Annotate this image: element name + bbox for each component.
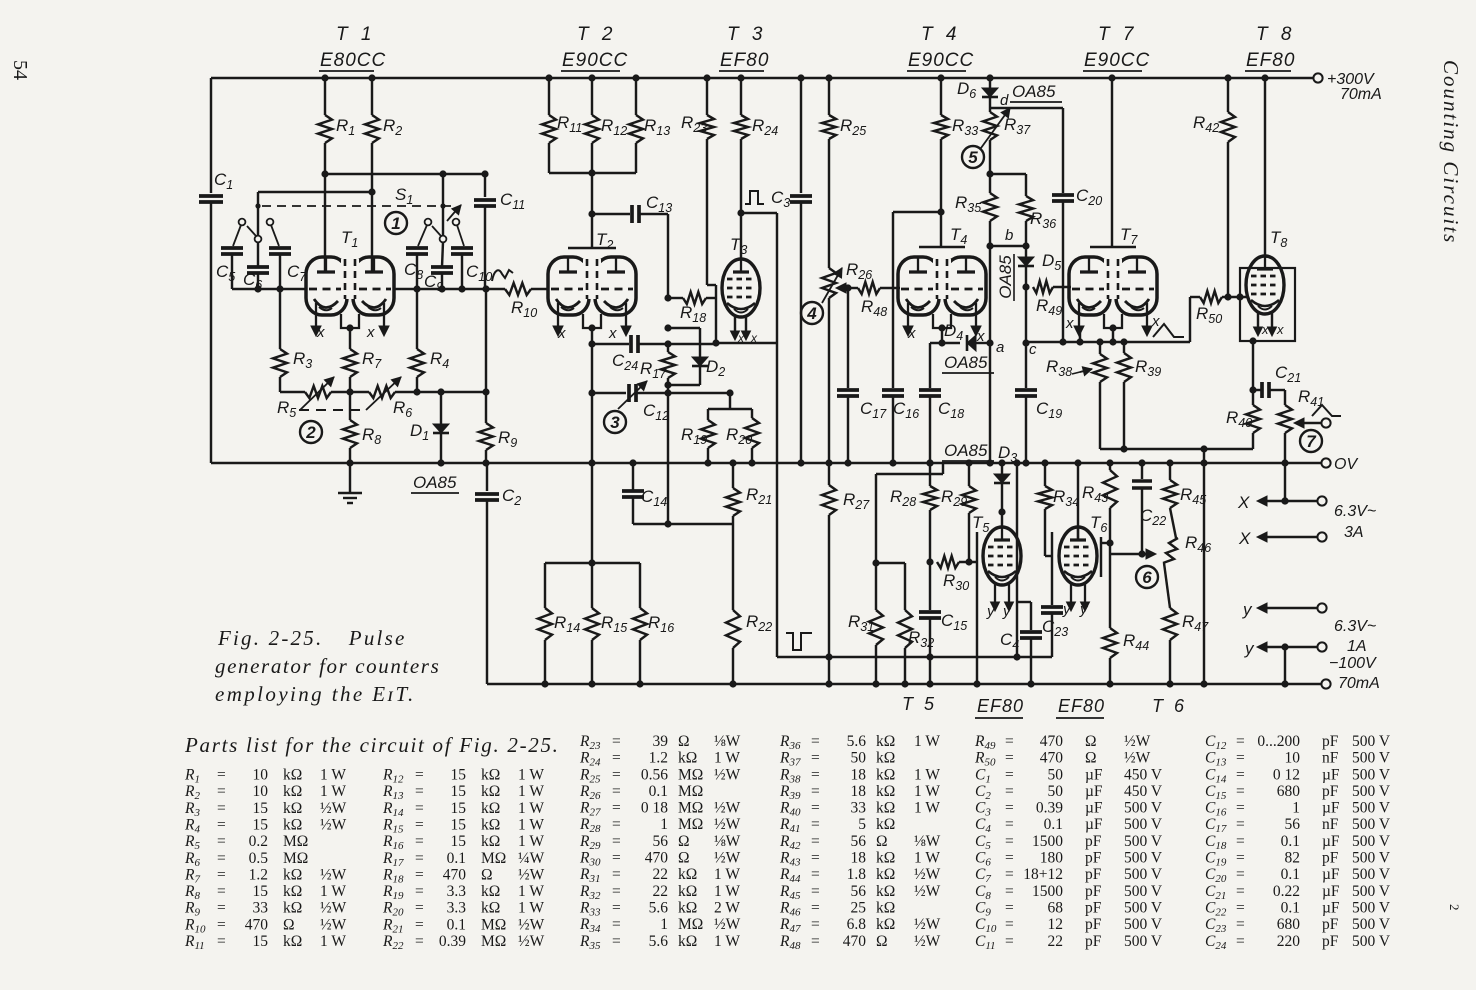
svg-text:1.2: 1.2 [249,866,268,883]
svg-text:6: 6 [1142,568,1152,587]
svg-text:=: = [217,866,226,883]
svg-text:MΩ: MΩ [678,816,703,833]
svg-text:x: x [907,325,916,342]
svg-text:500 V: 500 V [1124,883,1163,900]
svg-text:=: = [217,850,226,867]
svg-text:MΩ: MΩ [678,783,703,800]
svg-text:=: = [415,850,424,867]
svg-text:kΩ: kΩ [876,816,895,833]
svg-text:EF80: EF80 [1246,50,1295,71]
svg-text:0.1: 0.1 [1281,833,1300,850]
svg-text:MΩ: MΩ [678,766,703,783]
svg-text:0 12: 0 12 [1273,766,1300,783]
svg-text:0.1: 0.1 [447,850,466,867]
svg-text:Ω: Ω [876,833,888,850]
svg-text:56: 56 [851,833,867,850]
svg-text:kΩ: kΩ [283,767,302,784]
svg-text:0.56: 0.56 [641,766,668,783]
svg-text:56: 56 [851,883,867,900]
svg-text:−100V: −100V [1329,655,1377,672]
svg-text:E90CC: E90CC [1084,50,1150,71]
svg-text:450 V: 450 V [1124,783,1163,800]
svg-text:=: = [1236,916,1245,933]
svg-text:pF: pF [1322,733,1339,750]
svg-text:=: = [811,933,820,950]
svg-text:pF: pF [1085,850,1102,867]
svg-text:1 W: 1 W [914,800,940,817]
svg-text:=: = [811,783,820,800]
svg-text:5.6: 5.6 [649,933,669,950]
svg-text:=: = [217,767,226,784]
svg-text:22: 22 [1048,933,1064,950]
svg-text:x: x [608,325,617,342]
svg-text:=: = [415,783,424,800]
svg-text:1: 1 [660,916,668,933]
svg-text:=: = [612,816,621,833]
svg-text:25: 25 [851,900,867,917]
svg-text:2: 2 [305,423,316,442]
svg-text:5: 5 [968,148,978,167]
svg-text:3.3: 3.3 [447,900,467,917]
svg-text:1 W: 1 W [714,750,740,767]
svg-text:470: 470 [443,866,467,883]
svg-text:500 V: 500 V [1124,900,1163,917]
svg-text:56: 56 [653,833,669,850]
svg-text:Parts list for the circuit of: Parts list for the circuit of Fig. 2-25. [184,733,560,757]
svg-text:½W: ½W [1124,733,1151,750]
svg-text:1 W: 1 W [320,933,346,950]
svg-text:18: 18 [851,766,867,783]
svg-text:=: = [217,817,226,834]
svg-text:½W: ½W [714,850,741,867]
svg-text:0.39: 0.39 [439,933,466,950]
svg-text:=: = [415,883,424,900]
svg-text:56: 56 [1285,816,1301,833]
svg-text:T 6: T 6 [1152,696,1187,716]
svg-text:½W: ½W [320,866,347,883]
svg-text:22: 22 [653,866,669,883]
svg-text:x: x [750,331,758,345]
svg-text:10: 10 [253,783,269,800]
svg-text:=: = [1236,850,1245,867]
svg-text:OA85: OA85 [944,353,988,372]
svg-text:T 3: T 3 [727,24,766,45]
svg-text:=: = [1236,766,1245,783]
svg-text:=: = [1005,850,1014,867]
svg-text:82: 82 [1285,850,1301,867]
svg-text:½W: ½W [320,817,347,834]
svg-text:kΩ: kΩ [678,883,697,900]
svg-text:33: 33 [253,900,269,917]
svg-text:50: 50 [851,750,867,767]
svg-text:OA85: OA85 [996,255,1015,299]
svg-text:½W: ½W [714,916,741,933]
svg-text:0.1: 0.1 [1281,866,1300,883]
svg-text:=: = [1236,733,1245,750]
svg-text:x: x [1151,313,1160,330]
svg-text:500 V: 500 V [1352,783,1391,800]
svg-text:=: = [612,933,621,950]
svg-text:kΩ: kΩ [481,767,500,784]
svg-text:kΩ: kΩ [678,933,697,950]
svg-text:500 V: 500 V [1124,866,1163,883]
svg-text:=: = [811,883,820,900]
svg-text:⅛W: ⅛W [714,733,741,750]
svg-text:µF: µF [1085,816,1103,833]
svg-text:220: 220 [1277,933,1301,950]
svg-text:MΩ: MΩ [283,850,308,867]
svg-text:5: 5 [858,816,866,833]
svg-text:MΩ: MΩ [481,933,506,950]
svg-text:=: = [415,916,424,933]
svg-text:=: = [217,916,226,933]
svg-text:µF: µF [1322,900,1340,917]
svg-text:=: = [811,916,820,933]
svg-text:1 W: 1 W [518,800,544,817]
svg-text:=: = [811,900,820,917]
svg-text:500 V: 500 V [1124,833,1163,850]
svg-text:T 1: T 1 [336,24,375,45]
svg-text:500 V: 500 V [1352,916,1391,933]
svg-text:500 V: 500 V [1124,850,1163,867]
svg-text:X: X [1238,529,1251,548]
svg-text:MΩ: MΩ [481,916,506,933]
svg-text:0.39: 0.39 [1036,800,1063,817]
svg-text:54: 54 [9,60,31,80]
svg-text:1 W: 1 W [714,933,740,950]
svg-text:OA85: OA85 [1012,82,1056,101]
svg-text:=: = [1005,733,1014,750]
svg-text:=: = [612,733,621,750]
svg-text:=: = [217,933,226,950]
svg-text:kΩ: kΩ [481,800,500,817]
svg-text:MΩ: MΩ [678,916,703,933]
svg-text:=: = [217,883,226,900]
svg-text:0 18: 0 18 [641,800,668,817]
svg-text:µF: µF [1322,766,1340,783]
svg-text:¼W: ¼W [518,850,545,867]
svg-text:5.6: 5.6 [847,733,867,750]
svg-text:1 W: 1 W [518,767,544,784]
svg-text:a: a [996,339,1004,356]
svg-text:470: 470 [1040,733,1064,750]
svg-text:½W: ½W [320,800,347,817]
svg-text:pF: pF [1085,933,1102,950]
svg-text:680: 680 [1277,916,1301,933]
svg-text:1 W: 1 W [714,866,740,883]
svg-text:=: = [1005,783,1014,800]
svg-text:0.1: 0.1 [649,783,668,800]
svg-text:=: = [1236,800,1245,817]
svg-text:Counting Circuits: Counting Circuits [1439,60,1463,244]
svg-text:=: = [1236,883,1245,900]
svg-text:15: 15 [451,767,467,784]
svg-text:d: d [1000,92,1009,109]
svg-text:x: x [366,324,375,341]
svg-text:MΩ: MΩ [678,800,703,817]
svg-text:1 W: 1 W [914,850,940,867]
svg-text:1: 1 [1292,800,1300,817]
svg-text:T 2: T 2 [577,24,616,45]
svg-text:kΩ: kΩ [876,916,895,933]
svg-text:500 V: 500 V [1124,816,1163,833]
svg-text:kΩ: kΩ [876,850,895,867]
svg-text:y: y [1242,600,1253,619]
svg-text:pF: pF [1322,933,1339,950]
svg-text:µF: µF [1322,883,1340,900]
svg-text:=: = [612,783,621,800]
svg-text:kΩ: kΩ [876,766,895,783]
svg-text:kΩ: kΩ [283,800,302,817]
svg-text:OV: OV [1334,456,1358,473]
svg-text:39: 39 [653,733,669,750]
svg-text:kΩ: kΩ [283,783,302,800]
svg-text:1 W: 1 W [518,817,544,834]
svg-text:=: = [415,800,424,817]
svg-text:½W: ½W [320,900,347,917]
svg-text:T 8: T 8 [1256,24,1295,45]
svg-text:=: = [1005,750,1014,767]
svg-text:y: y [1244,639,1255,658]
svg-text:500 V: 500 V [1352,800,1391,817]
svg-text:=: = [415,866,424,883]
svg-text:1 W: 1 W [320,883,346,900]
svg-text:x: x [316,324,325,341]
svg-text:1: 1 [660,816,668,833]
svg-text:kΩ: kΩ [876,883,895,900]
svg-text:1 W: 1 W [914,733,940,750]
svg-text:kΩ: kΩ [481,833,500,850]
svg-text:500 V: 500 V [1352,900,1391,917]
svg-text:T 7: T 7 [1098,24,1137,45]
svg-text:22: 22 [653,883,669,900]
svg-text:x: x [1065,315,1074,332]
svg-text:E80CC: E80CC [320,50,386,71]
svg-text:1500: 1500 [1032,883,1063,900]
svg-text:=: = [1236,783,1245,800]
svg-text:½W: ½W [518,933,545,950]
svg-text:500 V: 500 V [1352,816,1391,833]
svg-text:Ω: Ω [1085,733,1097,750]
svg-text:Ω: Ω [678,850,690,867]
svg-text:0.22: 0.22 [1273,883,1300,900]
svg-text:500 V: 500 V [1352,733,1391,750]
svg-text:pF: pF [1085,833,1102,850]
svg-text:1A: 1A [1347,638,1367,655]
svg-text:pF: pF [1085,900,1102,917]
svg-text:15: 15 [253,800,269,817]
svg-text:MΩ: MΩ [481,850,506,867]
svg-text:kΩ: kΩ [283,933,302,950]
svg-text:=: = [811,850,820,867]
svg-text:1.2: 1.2 [649,750,668,767]
svg-text:500 V: 500 V [1124,800,1163,817]
svg-text:T 4: T 4 [921,24,960,45]
svg-text:6.8: 6.8 [847,916,867,933]
svg-text:½W: ½W [714,766,741,783]
svg-text:5.6: 5.6 [649,900,669,917]
svg-text:=: = [415,767,424,784]
svg-text:Fig. 2-25. Pulse: Fig. 2-25. Pulse [217,626,406,650]
svg-text:kΩ: kΩ [481,883,500,900]
svg-text:=: = [1005,933,1014,950]
svg-text:0...200: 0...200 [1257,733,1300,750]
svg-text:=: = [811,750,820,767]
svg-text:½W: ½W [714,800,741,817]
svg-text:kΩ: kΩ [283,866,302,883]
svg-text:µF: µF [1322,800,1340,817]
svg-text:=: = [811,733,820,750]
svg-text:½W: ½W [518,916,545,933]
svg-text:kΩ: kΩ [678,900,697,917]
svg-text:1 W: 1 W [518,833,544,850]
svg-text:=: = [1236,833,1245,850]
svg-text:70mA: 70mA [1340,86,1382,103]
svg-text:Ω: Ω [1085,750,1097,767]
svg-text:6.3V~: 6.3V~ [1334,618,1376,635]
svg-text:Ω: Ω [678,833,690,850]
svg-text:µF: µF [1085,783,1103,800]
svg-text:=: = [1005,900,1014,917]
svg-text:kΩ: kΩ [678,750,697,767]
svg-text:1500: 1500 [1032,833,1063,850]
svg-text:7: 7 [1306,432,1317,451]
svg-text:EF80: EF80 [1058,696,1105,716]
svg-text:½W: ½W [714,816,741,833]
svg-text:µF: µF [1085,766,1103,783]
svg-text:Ω: Ω [283,916,295,933]
svg-text:470: 470 [843,933,867,950]
svg-text:15: 15 [451,800,467,817]
svg-text:⅛W: ⅛W [914,833,941,850]
svg-text:x: x [1276,322,1284,337]
svg-text:T 5: T 5 [902,694,937,714]
svg-text:OA85: OA85 [413,473,457,492]
svg-text:=: = [1005,883,1014,900]
svg-text:70mA: 70mA [1338,675,1380,692]
svg-text:6.3V~: 6.3V~ [1334,503,1376,520]
svg-text:=: = [612,850,621,867]
svg-text:=: = [612,916,621,933]
svg-text:EF80: EF80 [977,696,1024,716]
svg-text:15: 15 [253,817,269,834]
svg-text:kΩ: kΩ [876,733,895,750]
svg-text:680: 680 [1277,783,1301,800]
svg-text:=: = [1005,800,1014,817]
svg-text:x: x [737,331,745,345]
svg-text:Ω: Ω [481,866,493,883]
svg-text:470: 470 [1040,750,1064,767]
svg-text:kΩ: kΩ [678,866,697,883]
svg-text:1 W: 1 W [914,766,940,783]
svg-text:pF: pF [1085,866,1102,883]
svg-text:=: = [1005,866,1014,883]
svg-text:1 W: 1 W [320,783,346,800]
svg-text:kΩ: kΩ [876,783,895,800]
svg-text:=: = [1236,900,1245,917]
svg-text:1 W: 1 W [714,883,740,900]
svg-text:500 V: 500 V [1352,833,1391,850]
svg-text:=: = [811,833,820,850]
svg-text:kΩ: kΩ [481,783,500,800]
svg-text:=: = [811,866,820,883]
svg-text:33: 33 [851,800,867,817]
svg-text:2: 2 [1447,904,1462,911]
svg-text:=: = [612,750,621,767]
svg-text:15: 15 [451,817,467,834]
svg-text:½W: ½W [914,916,941,933]
svg-text:½W: ½W [320,916,347,933]
svg-text:10: 10 [1285,750,1301,767]
svg-text:50: 50 [1048,783,1064,800]
svg-text:kΩ: kΩ [283,817,302,834]
svg-text:1: 1 [391,214,400,233]
svg-text:pF: pF [1322,783,1339,800]
svg-text:500 V: 500 V [1352,883,1391,900]
svg-text:E90CC: E90CC [562,50,628,71]
svg-text:15: 15 [253,933,269,950]
svg-text:1 W: 1 W [914,783,940,800]
svg-text:=: = [612,766,621,783]
svg-text:18+12: 18+12 [1023,866,1063,883]
svg-text:½W: ½W [1124,750,1151,767]
svg-text:=: = [612,883,621,900]
svg-text:=: = [1236,933,1245,950]
svg-text:500 V: 500 V [1352,750,1391,767]
svg-text:kΩ: kΩ [876,866,895,883]
svg-text:=: = [217,783,226,800]
svg-text:pF: pF [1322,850,1339,867]
svg-text:=: = [1236,750,1245,767]
svg-text:3.3: 3.3 [447,883,467,900]
svg-text:500 V: 500 V [1352,933,1391,950]
svg-text:µF: µF [1322,866,1340,883]
svg-text:½W: ½W [914,866,941,883]
svg-text:nF: nF [1322,816,1339,833]
svg-text:500 V: 500 V [1352,766,1391,783]
svg-text:500 V: 500 V [1124,916,1163,933]
svg-text:b: b [1005,227,1013,244]
svg-text:kΩ: kΩ [283,883,302,900]
svg-text:=: = [811,800,820,817]
svg-text:½W: ½W [518,866,545,883]
svg-text:470: 470 [245,916,269,933]
svg-text:2 W: 2 W [714,900,740,917]
svg-text:x: x [557,325,566,342]
svg-text:0.2: 0.2 [249,833,268,850]
svg-text:½W: ½W [914,933,941,950]
svg-text:500 V: 500 V [1124,933,1163,950]
svg-text:=: = [217,833,226,850]
svg-text:µF: µF [1322,833,1340,850]
svg-text:kΩ: kΩ [876,750,895,767]
svg-text:nF: nF [1322,750,1339,767]
svg-text:1.8: 1.8 [847,866,867,883]
svg-text:=: = [217,900,226,917]
svg-text:kΩ: kΩ [876,800,895,817]
svg-text:X: X [1237,493,1250,512]
svg-text:500 V: 500 V [1352,866,1391,883]
svg-text:450 V: 450 V [1124,766,1163,783]
svg-text:0.1: 0.1 [1044,816,1063,833]
svg-text:EF80: EF80 [720,50,769,71]
svg-text:3A: 3A [1344,524,1364,541]
svg-text:µF: µF [1085,800,1103,817]
svg-text:=: = [612,800,621,817]
svg-text:3: 3 [610,413,620,432]
svg-text:=: = [415,933,424,950]
svg-text:470: 470 [645,850,669,867]
